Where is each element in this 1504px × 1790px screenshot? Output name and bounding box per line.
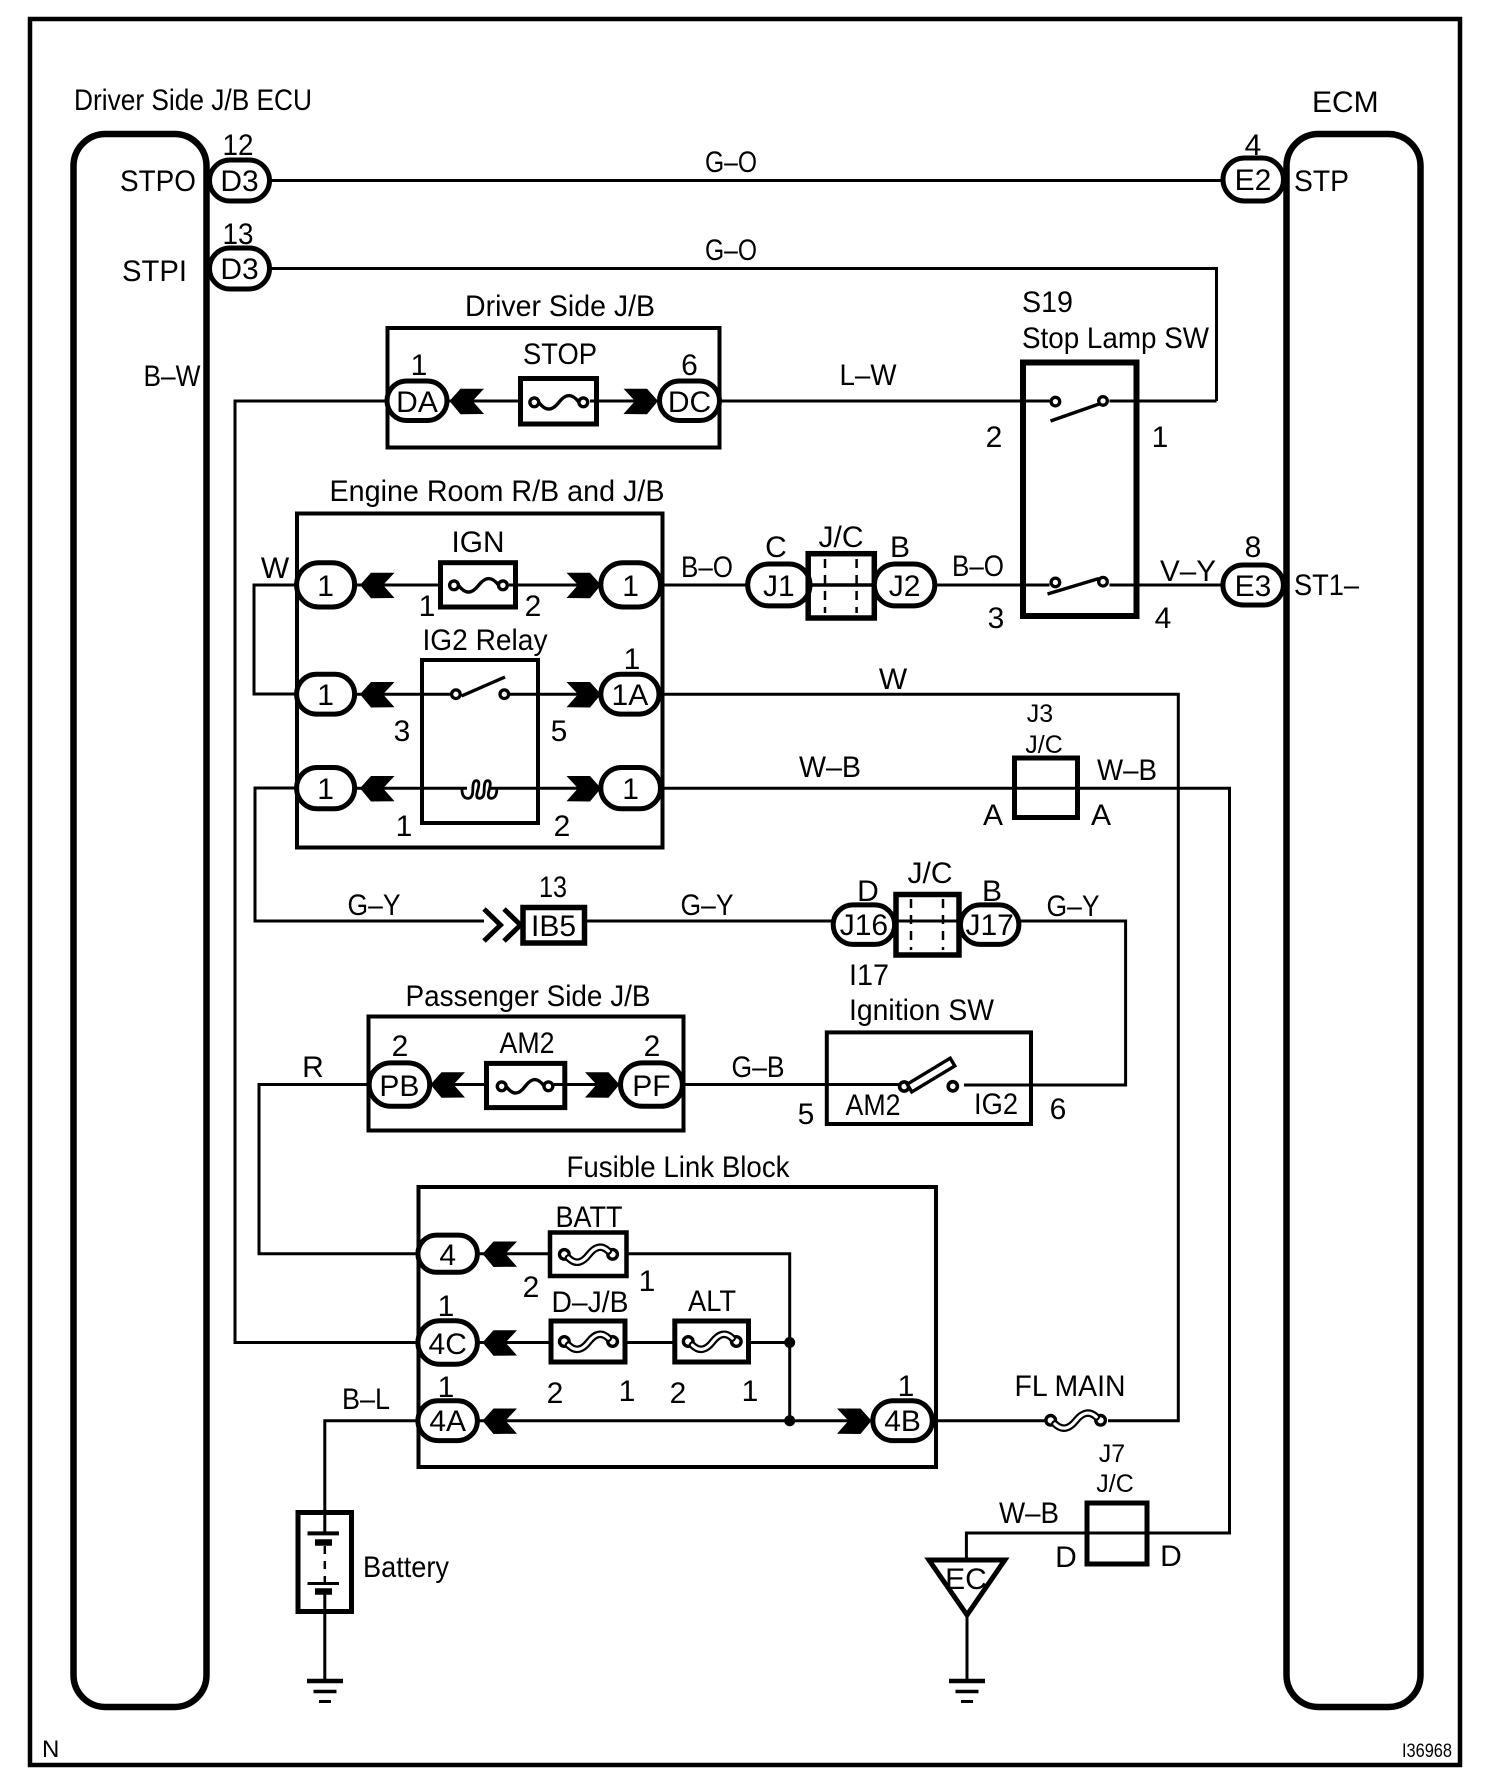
svg-text:W–B: W–B <box>1097 754 1157 787</box>
svg-text:1: 1 <box>438 1371 455 1404</box>
connector J17 <box>960 875 1019 944</box>
connector ER row3 left pin 1 <box>297 768 355 809</box>
svg-text:IGN: IGN <box>452 526 505 559</box>
svg-text:D–J/B: D–J/B <box>552 1286 629 1319</box>
connector 1A pin 1 <box>601 643 659 714</box>
svg-text:6: 6 <box>681 349 698 382</box>
svg-text:D: D <box>1055 1541 1077 1574</box>
wire G-Y IB5 to J16 <box>585 889 836 922</box>
svg-text:J17: J17 <box>966 909 1014 942</box>
svg-text:W: W <box>261 552 290 585</box>
box Driver Side J/B <box>388 290 720 448</box>
relay coil <box>396 781 571 843</box>
svg-text:G–Y: G–Y <box>348 889 401 922</box>
svg-text:B–L: B–L <box>342 1383 390 1416</box>
wire 4 to BATT fuse <box>477 1252 558 1255</box>
svg-text:1: 1 <box>438 1290 455 1323</box>
double chevron into IB5 <box>484 909 521 941</box>
svg-text:J/C: J/C <box>1025 731 1063 759</box>
svg-text:2: 2 <box>392 1030 409 1063</box>
wire B-L 4A to battery <box>325 1383 420 1513</box>
arrow into ER row3 left <box>360 776 395 802</box>
svg-text:EC: EC <box>945 1563 987 1596</box>
junction dot 4A row <box>784 1415 795 1426</box>
box Engine Room R/B and J/B <box>297 475 665 848</box>
wire coil to row3 right <box>490 787 606 790</box>
svg-text:I17: I17 <box>849 959 889 992</box>
connector DA pin 1 <box>387 349 447 421</box>
fuse AM2 <box>487 1027 565 1108</box>
svg-text:PB: PB <box>379 1070 419 1103</box>
svg-text:4A: 4A <box>429 1405 466 1438</box>
svg-text:C: C <box>765 531 787 564</box>
svg-text:12: 12 <box>223 129 254 162</box>
svg-text:A: A <box>983 799 1003 832</box>
svg-text:3: 3 <box>394 715 411 748</box>
ground symbol EC <box>949 1681 985 1702</box>
svg-text:Passenger Side J/B: Passenger Side J/B <box>406 980 651 1013</box>
connector IB5 pin 13 <box>523 871 585 943</box>
wire PB to AM2 fuse <box>429 1083 495 1086</box>
svg-text:1: 1 <box>898 1370 915 1403</box>
arrow into 4C <box>483 1330 518 1356</box>
svg-text:Driver Side J/B: Driver Side J/B <box>465 290 655 323</box>
wire R PB to fusible link 4 <box>259 1051 420 1254</box>
svg-text:G–B: G–B <box>732 1051 785 1084</box>
ground EC triangle <box>929 1560 1005 1615</box>
arrow into 4A <box>483 1409 518 1435</box>
svg-text:3: 3 <box>988 602 1005 635</box>
connector 4B pin 1 <box>873 1370 933 1441</box>
battery <box>298 1513 449 1682</box>
svg-text:2: 2 <box>986 421 1003 454</box>
fusible link BATT <box>523 1201 656 1304</box>
arrow into 1A <box>567 682 602 708</box>
box IG2 Relay <box>422 624 548 823</box>
svg-text:13: 13 <box>223 218 254 251</box>
svg-text:J16: J16 <box>840 909 888 942</box>
svg-text:G–O: G–O <box>705 146 757 179</box>
connector ER row2 left pin 1 <box>297 674 355 714</box>
box Fusible Link Block <box>419 1151 937 1467</box>
svg-text:D3: D3 <box>220 253 258 286</box>
svg-text:B: B <box>890 531 910 564</box>
wire DA to STOP fuse <box>447 400 527 403</box>
arrow into PB <box>431 1072 466 1098</box>
svg-text:Battery: Battery <box>363 1551 449 1584</box>
arrow into ER row1 left <box>360 573 395 599</box>
wire W-B row3 right to J7 vertical <box>661 751 1230 1559</box>
connector J16 <box>833 875 894 944</box>
svg-text:1: 1 <box>619 1375 636 1408</box>
arrow into ER row1 right <box>567 573 602 599</box>
svg-text:E3: E3 <box>1235 570 1272 603</box>
wire AM2 fuse to PF <box>554 1083 622 1086</box>
block ECM <box>1287 86 1421 1707</box>
arrow into DC <box>624 389 659 415</box>
svg-text:2: 2 <box>547 1377 564 1410</box>
wire stop lamp SW pin 1 to STPI vertical <box>1110 400 1217 403</box>
svg-text:R: R <box>302 1051 324 1084</box>
box Passenger Side J/B <box>369 980 684 1131</box>
svg-text:4C: 4C <box>429 1328 467 1361</box>
wire row1 left to IGN fuse <box>354 584 447 587</box>
svg-text:V–Y: V–Y <box>1160 555 1216 588</box>
svg-text:STPO: STPO <box>120 165 196 198</box>
junction connector J3 J/C <box>983 700 1111 832</box>
connector J1 <box>748 531 810 606</box>
connector J2 <box>874 531 935 606</box>
svg-text:1: 1 <box>419 590 436 623</box>
wire D-J/B to ALT fuse <box>625 1341 682 1344</box>
svg-text:1: 1 <box>624 643 641 676</box>
svg-text:G–Y: G–Y <box>1047 890 1100 923</box>
fusible link ALT <box>670 1285 759 1410</box>
svg-text:W–B: W–B <box>999 1497 1059 1530</box>
connector ER row1 right pin 1 <box>601 563 661 607</box>
svg-text:1: 1 <box>639 1265 656 1298</box>
svg-text:4: 4 <box>439 1239 456 1272</box>
junction connector J/C J16-J17 <box>849 857 961 992</box>
connector 4 <box>418 1235 478 1272</box>
connector 4A pin 1 <box>418 1371 478 1441</box>
svg-text:J/C: J/C <box>819 521 864 554</box>
svg-text:ECM: ECM <box>1312 86 1379 119</box>
svg-text:B–O: B–O <box>681 551 733 584</box>
connector D3 pin 13 <box>210 218 270 289</box>
wire G-B PF to ignition SW pin 5 <box>682 1051 899 1085</box>
svg-text:G–Y: G–Y <box>681 889 734 922</box>
wire BATT fuse to junction vertical <box>625 1254 790 1421</box>
svg-text:IG2: IG2 <box>974 1088 1018 1121</box>
wire row2 left to relay contact <box>354 693 450 696</box>
svg-text:Fusible Link Block: Fusible Link Block <box>567 1151 791 1184</box>
box S19 Stop Lamp SW <box>1022 286 1210 616</box>
connector DC pin 6 <box>660 349 720 421</box>
arrow into 4 <box>483 1242 518 1268</box>
svg-text:STP: STP <box>1294 165 1349 198</box>
svg-text:4B: 4B <box>884 1405 921 1438</box>
wire IGN fuse to row1 right <box>509 584 606 587</box>
junction dot 4C row <box>784 1337 795 1348</box>
svg-text:D: D <box>857 875 879 908</box>
junction connector J/C J1-J2 <box>808 521 875 618</box>
connector ER row1 left pin 1 <box>297 563 355 607</box>
wire B-W from DA to 4C <box>144 360 421 1343</box>
svg-text:DA: DA <box>396 386 438 419</box>
svg-text:IB5: IB5 <box>531 910 576 943</box>
wire ALT to junction <box>749 1341 790 1344</box>
wire G-Y IB5 row <box>348 889 401 922</box>
svg-text:J3: J3 <box>1027 700 1053 728</box>
svg-text:N: N <box>42 1736 59 1763</box>
stop lamp switch contacts row 2 <box>988 577 1172 635</box>
svg-text:1A: 1A <box>612 679 649 712</box>
wire row3 left to coil <box>354 787 467 790</box>
svg-text:13: 13 <box>539 871 567 904</box>
wire 4A to 4B <box>477 1419 874 1422</box>
svg-text:1: 1 <box>317 570 334 603</box>
svg-text:J/C: J/C <box>908 857 953 890</box>
svg-text:Engine Room R/B and J/B: Engine Room R/B and J/B <box>330 475 665 508</box>
svg-text:D3: D3 <box>220 165 258 198</box>
connector E2 pin 4 <box>1223 129 1284 201</box>
svg-text:L–W: L–W <box>840 359 898 392</box>
svg-text:1: 1 <box>742 1375 759 1408</box>
wire G-O STPO to E2 <box>269 146 1223 181</box>
svg-text:1: 1 <box>622 773 639 806</box>
wire relay contact to 1A <box>510 693 606 696</box>
svg-text:IG2 Relay: IG2 Relay <box>423 624 548 657</box>
svg-text:B–W: B–W <box>144 360 202 393</box>
wire G-O STPI to stop lamp SW pin 1 <box>269 234 1217 401</box>
wire STOP fuse to DC <box>590 400 662 403</box>
wire L-W DC to stop lamp SW pin 2 <box>717 359 1050 401</box>
wire B-O J2 to stop lamp SW pin 3 <box>935 550 1050 585</box>
svg-text:ALT: ALT <box>688 1285 736 1318</box>
svg-text:J7: J7 <box>1099 1440 1125 1468</box>
fuse STOP <box>521 338 598 424</box>
arrow into ER row2 left <box>360 682 395 708</box>
arrow into 4B <box>837 1409 872 1435</box>
svg-text:Driver Side J/B ECU: Driver Side J/B ECU <box>74 84 312 117</box>
svg-text:B: B <box>982 875 1002 908</box>
svg-text:1: 1 <box>396 810 413 843</box>
svg-text:5: 5 <box>798 1098 815 1131</box>
arrow into PF <box>585 1072 620 1098</box>
svg-text:2: 2 <box>523 1271 540 1304</box>
svg-text:2: 2 <box>525 590 542 623</box>
svg-text:E2: E2 <box>1235 164 1272 197</box>
stop lamp switch contacts row 1 <box>986 397 1169 454</box>
connector PF pin 2 <box>621 1030 683 1106</box>
svg-text:J2: J2 <box>889 570 921 603</box>
svg-text:1: 1 <box>1152 421 1169 454</box>
svg-text:I36968: I36968 <box>1402 1741 1452 1762</box>
svg-text:G–O: G–O <box>705 234 757 267</box>
connector ER row3 right pin 1 <box>601 768 661 809</box>
svg-text:PF: PF <box>632 1070 670 1103</box>
svg-text:BATT: BATT <box>556 1201 623 1234</box>
svg-text:Ignition SW: Ignition SW <box>849 994 995 1027</box>
svg-text:AM2: AM2 <box>500 1027 555 1060</box>
ground symbol battery <box>307 1681 343 1702</box>
svg-text:AM2: AM2 <box>846 1089 901 1122</box>
svg-text:STOP: STOP <box>523 338 597 371</box>
svg-text:S19: S19 <box>1022 286 1073 319</box>
svg-text:FL MAIN: FL MAIN <box>1015 1370 1126 1403</box>
connector PB pin 2 <box>369 1030 430 1106</box>
connector D3 pin 12 <box>210 129 270 201</box>
arrow into DA <box>450 389 485 415</box>
svg-text:1: 1 <box>622 570 639 603</box>
svg-text:1: 1 <box>317 773 334 806</box>
svg-text:J/C: J/C <box>1096 1470 1134 1498</box>
fuse IGN <box>419 526 542 623</box>
svg-text:W–B: W–B <box>799 751 861 784</box>
svg-text:2: 2 <box>670 1377 687 1410</box>
svg-text:6: 6 <box>1050 1093 1067 1126</box>
svg-text:4: 4 <box>1245 129 1262 162</box>
wire W from 1A to FL MAIN <box>659 663 1178 1421</box>
svg-text:2: 2 <box>554 810 571 843</box>
svg-text:B–O: B–O <box>952 550 1004 583</box>
wire W loop row1 to row2 <box>254 552 299 694</box>
relay switch contacts <box>394 677 568 748</box>
fusible link D-J/B <box>547 1286 636 1410</box>
svg-text:A: A <box>1091 799 1111 832</box>
junction connector J7 J/C <box>999 1440 1182 1574</box>
svg-text:5: 5 <box>551 715 568 748</box>
svg-text:W: W <box>879 663 908 696</box>
svg-text:2: 2 <box>644 1030 661 1063</box>
svg-text:1: 1 <box>411 349 428 382</box>
block Driver Side J/B ECU <box>74 84 313 1707</box>
svg-text:ST1–: ST1– <box>1294 569 1359 602</box>
svg-text:8: 8 <box>1245 531 1262 564</box>
svg-text:4: 4 <box>1155 602 1172 635</box>
wire V-Y stop lamp SW pin 4 to E3 <box>1110 555 1224 588</box>
arrow into ER row3 right <box>567 776 602 802</box>
wire G-Y J17 to ignition SW pin 6 <box>964 890 1126 1085</box>
svg-text:1: 1 <box>317 679 334 712</box>
fusible link FL MAIN <box>932 1370 1125 1428</box>
svg-text:Stop Lamp SW: Stop Lamp SW <box>1022 322 1210 355</box>
connector E3 pin 8 <box>1223 531 1284 605</box>
wire EC to ground <box>966 1615 969 1681</box>
wire row3 oval to G-Y row <box>255 788 484 921</box>
ignition switch contacts <box>798 1058 1067 1131</box>
svg-text:D: D <box>1160 1540 1182 1573</box>
wire 4C to D-J/B fuse <box>477 1341 558 1344</box>
connector 4C pin 1 <box>418 1290 478 1364</box>
box Ignition SW <box>827 994 1031 1124</box>
wire B-O row1 right to J1 <box>661 551 751 585</box>
svg-text:DC: DC <box>668 386 711 419</box>
svg-text:J1: J1 <box>763 570 795 603</box>
svg-text:STPI: STPI <box>122 255 187 288</box>
